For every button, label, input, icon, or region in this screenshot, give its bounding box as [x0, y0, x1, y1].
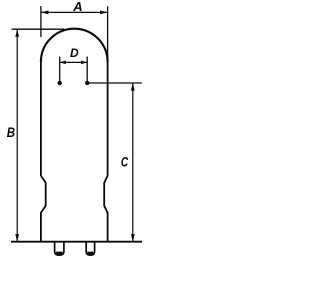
left pin tip nub: [56, 252, 63, 255]
right pin: [86, 242, 94, 255]
B top extension line: [12, 28, 65, 30]
dimension C line with arrows: [131, 83, 135, 242]
C top extension line (from right dot): [87, 82, 142, 84]
lamp body left side with crimp notch: [41, 61, 46, 242]
lamp base bottom line (also extension line for B and C): [11, 241, 142, 243]
right pin tip nub: [87, 252, 93, 255]
svg-text:C: C: [121, 154, 128, 170]
dimension A line with arrows: [41, 11, 108, 15]
D left extension line (stub above left dot): [59, 57, 61, 84]
right electrode dot: [85, 81, 89, 85]
A right extension line: [107, 6, 109, 62]
A left extension line: [40, 6, 42, 37]
left pin: [55, 242, 64, 255]
svg-text:A: A: [72, 0, 82, 14]
lamp dome (bulb top arc): [41, 29, 108, 62]
svg-text:D: D: [70, 46, 79, 60]
lamp body right side with crimp notch: [104, 61, 107, 242]
dimension D line with arrows: [60, 61, 87, 65]
svg-text:B: B: [7, 124, 15, 140]
D right extension line (stub above right dot): [86, 57, 88, 84]
dimension B line with arrows: [15, 29, 19, 242]
left electrode dot: [58, 81, 62, 85]
